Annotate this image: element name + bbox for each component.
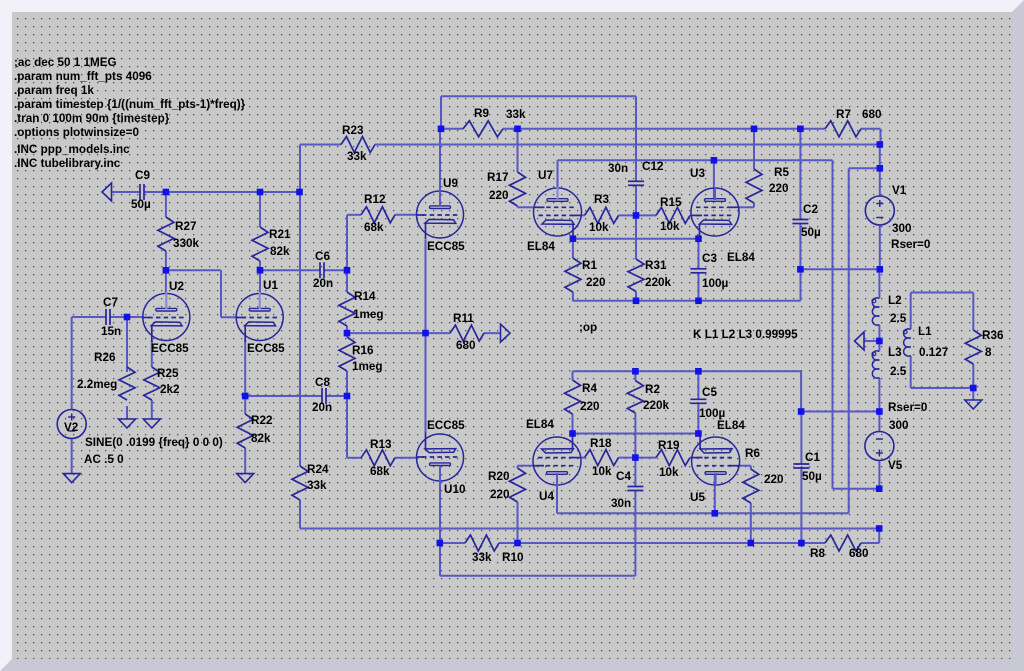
- svg-text:C3: C3: [702, 252, 717, 265]
- svg-text:U10: U10: [444, 483, 466, 496]
- svg-text:100µ: 100µ: [699, 407, 726, 420]
- svg-text:V1: V1: [892, 184, 907, 197]
- svg-text:ECC85: ECC85: [247, 342, 285, 355]
- svg-text:82k: 82k: [251, 432, 271, 445]
- svg-text:220: 220: [490, 488, 510, 501]
- svg-text:C12: C12: [642, 160, 664, 173]
- svg-text:C9: C9: [135, 169, 150, 182]
- svg-text:.tran 0 100m 90m {timestep}: .tran 0 100m 90m {timestep}: [14, 112, 170, 125]
- svg-text:50µ: 50µ: [802, 470, 822, 483]
- svg-text:680: 680: [849, 547, 869, 560]
- svg-text:30n: 30n: [608, 162, 628, 175]
- svg-text:R6: R6: [745, 447, 760, 460]
- svg-text:100µ: 100µ: [702, 277, 729, 290]
- svg-text:2k2: 2k2: [160, 383, 180, 396]
- svg-text:C8: C8: [315, 376, 330, 389]
- svg-text:30n: 30n: [611, 497, 631, 510]
- svg-text:C7: C7: [103, 296, 118, 309]
- svg-text:.INC tubelibrary.inc: .INC tubelibrary.inc: [14, 157, 121, 170]
- svg-text:R22: R22: [251, 414, 273, 427]
- svg-text:R36: R36: [982, 329, 1004, 342]
- svg-text:50µ: 50µ: [801, 226, 821, 239]
- svg-text:1meg: 1meg: [353, 308, 384, 321]
- svg-text:;ac dec 50 1 1MEG: ;ac dec 50 1 1MEG: [14, 56, 117, 69]
- svg-text:L2: L2: [888, 294, 902, 307]
- svg-text:220: 220: [580, 400, 600, 413]
- svg-text:68k: 68k: [370, 465, 390, 478]
- svg-text:C4: C4: [616, 470, 631, 483]
- svg-text:R27: R27: [175, 220, 196, 233]
- svg-text:15n: 15n: [101, 325, 121, 338]
- svg-text:10k: 10k: [660, 220, 680, 233]
- svg-text:V5: V5: [888, 459, 903, 472]
- svg-text:.param freq 1k: .param freq 1k: [14, 84, 94, 97]
- svg-text:2.5: 2.5: [890, 312, 907, 325]
- svg-text:U9: U9: [443, 177, 458, 190]
- svg-text:300: 300: [889, 419, 909, 432]
- svg-text:R26: R26: [94, 351, 116, 364]
- svg-text:K L1 L2 L3 0.99995: K L1 L2 L3 0.99995: [693, 328, 798, 341]
- svg-text:33k: 33k: [472, 551, 492, 564]
- svg-text:.param num_fft_pts 4096: .param num_fft_pts 4096: [14, 70, 152, 83]
- svg-text:L3: L3: [888, 346, 902, 359]
- svg-text:2.2meg: 2.2meg: [77, 378, 117, 391]
- svg-text:20n: 20n: [312, 401, 332, 414]
- svg-text:R23: R23: [342, 124, 364, 137]
- svg-text:ECC85: ECC85: [427, 419, 465, 432]
- svg-text:R10: R10: [502, 551, 524, 564]
- svg-text:10k: 10k: [589, 221, 609, 234]
- svg-text:8: 8: [985, 346, 992, 359]
- svg-text:R1: R1: [582, 259, 597, 272]
- svg-text:0.127: 0.127: [919, 346, 948, 359]
- svg-text:.param timestep {1/((num_fft_p: .param timestep {1/((num_fft_pts-1)*freq…: [14, 98, 246, 111]
- svg-text:R24: R24: [307, 463, 329, 476]
- svg-text:.INC ppp_models.inc: .INC ppp_models.inc: [14, 143, 130, 156]
- svg-text:220k: 220k: [643, 399, 670, 412]
- svg-text:AC .5 0: AC .5 0: [84, 453, 124, 466]
- svg-text:R8: R8: [810, 547, 825, 560]
- svg-text:.options plotwinsize=0: .options plotwinsize=0: [14, 126, 140, 139]
- svg-text:R5: R5: [774, 166, 789, 179]
- svg-text:300: 300: [892, 222, 912, 235]
- svg-text:33k: 33k: [506, 108, 526, 121]
- svg-text:R15: R15: [660, 196, 682, 209]
- svg-text:10k: 10k: [659, 466, 679, 479]
- svg-text:R25: R25: [157, 367, 179, 380]
- svg-text:R19: R19: [658, 439, 680, 452]
- svg-text:220: 220: [764, 473, 784, 486]
- svg-text:220: 220: [586, 276, 606, 289]
- svg-text:220k: 220k: [645, 276, 672, 289]
- svg-text:R31: R31: [645, 259, 667, 272]
- svg-text:1meg: 1meg: [352, 360, 383, 373]
- svg-text:68k: 68k: [364, 221, 384, 234]
- svg-text:U2: U2: [169, 280, 184, 293]
- svg-text:Rser=0: Rser=0: [888, 401, 928, 414]
- svg-text:680: 680: [456, 339, 476, 352]
- svg-text:U7: U7: [538, 169, 553, 182]
- svg-text:EL84: EL84: [717, 419, 745, 432]
- svg-text:SINE(0 .0199 {freq} 0 0 0): SINE(0 .0199 {freq} 0 0 0): [85, 436, 223, 449]
- svg-text:33k: 33k: [347, 150, 367, 163]
- svg-text:U5: U5: [690, 491, 705, 504]
- svg-text:R12: R12: [364, 193, 386, 206]
- svg-text:U3: U3: [690, 167, 705, 180]
- svg-text:C1: C1: [805, 451, 820, 464]
- svg-text:R21: R21: [269, 228, 291, 241]
- svg-text:220: 220: [489, 189, 509, 202]
- svg-text:R9: R9: [474, 107, 489, 120]
- svg-text:C2: C2: [803, 203, 818, 216]
- svg-text:R7: R7: [836, 108, 851, 121]
- svg-text:20n: 20n: [313, 277, 333, 290]
- svg-text:2.5: 2.5: [890, 365, 907, 378]
- svg-text:R14: R14: [354, 290, 376, 303]
- svg-text:220: 220: [769, 182, 789, 195]
- svg-text:;op: ;op: [579, 321, 597, 334]
- svg-text:R4: R4: [582, 382, 597, 395]
- svg-text:EL84: EL84: [727, 251, 755, 264]
- svg-text:R16: R16: [352, 344, 374, 357]
- svg-text:U4: U4: [539, 490, 554, 503]
- svg-text:L1: L1: [918, 325, 932, 338]
- svg-text:R18: R18: [590, 437, 612, 450]
- svg-text:C6: C6: [315, 250, 330, 263]
- svg-text:10k: 10k: [592, 465, 612, 478]
- svg-text:ECC85: ECC85: [427, 240, 465, 253]
- svg-text:R2: R2: [645, 383, 660, 396]
- svg-text:EL84: EL84: [526, 418, 554, 431]
- svg-text:33k: 33k: [307, 479, 327, 492]
- svg-text:50µ: 50µ: [131, 198, 151, 211]
- svg-text:U1: U1: [263, 279, 278, 292]
- svg-text:82k: 82k: [270, 245, 290, 258]
- svg-text:V2: V2: [64, 421, 79, 434]
- svg-text:R11: R11: [453, 312, 474, 325]
- svg-text:ECC85: ECC85: [151, 342, 189, 355]
- svg-text:R20: R20: [488, 470, 510, 483]
- svg-text:R13: R13: [370, 438, 392, 451]
- svg-text:C5: C5: [702, 386, 717, 399]
- svg-text:R17: R17: [487, 171, 508, 184]
- svg-text:EL84: EL84: [527, 240, 555, 253]
- svg-text:Rser=0: Rser=0: [891, 238, 931, 251]
- svg-text:680: 680: [862, 108, 882, 121]
- svg-text:330k: 330k: [173, 237, 200, 250]
- svg-text:R3: R3: [594, 193, 609, 206]
